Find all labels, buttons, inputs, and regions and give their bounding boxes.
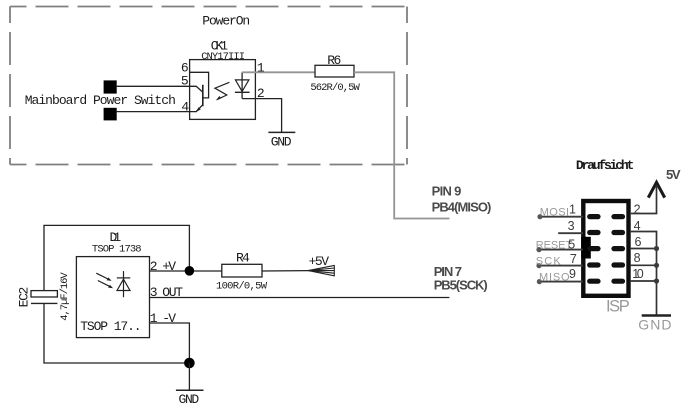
resistor R4 <box>222 264 262 277</box>
ISP connector body <box>583 201 628 296</box>
ground bar opto <box>268 131 295 133</box>
pin 1 -V wire <box>150 323 190 363</box>
svg-text:MISO: MISO <box>539 271 570 283</box>
svg-text:RESET: RESET <box>536 239 573 251</box>
wire pin5 collector <box>117 86 203 92</box>
photodiode triangle <box>117 279 130 290</box>
wire RESET stub <box>539 249 583 251</box>
ground bar TSOP <box>176 389 204 391</box>
svg-text:-V: -V <box>162 311 176 326</box>
wire MISO stub <box>540 281 583 283</box>
capacitor EC2 negative plate <box>31 302 57 304</box>
svg-text:+V: +V <box>162 259 176 274</box>
capacitor EC2 positive plate <box>31 291 57 297</box>
junction dot -V <box>184 358 195 369</box>
wire R4 to +5V <box>262 270 308 272</box>
photodiode vertical lead <box>123 271 125 297</box>
wire pin6 base connection <box>190 72 209 98</box>
gnd rail vertical <box>656 232 658 316</box>
LED D anode lead <box>241 72 243 98</box>
optocoupler U OK1 box <box>190 60 256 120</box>
svg-text:2: 2 <box>150 259 158 274</box>
svg-text:8: 8 <box>634 251 641 265</box>
svg-text:GND: GND <box>179 392 200 407</box>
svg-text:PowerOn: PowerOn <box>202 14 250 29</box>
dashed frame PowerOn region <box>10 7 407 165</box>
svg-text:PIN 9: PIN 9 <box>432 183 462 198</box>
LED triangle <box>235 80 249 92</box>
junction dot pin8 <box>654 263 659 268</box>
svg-text:SCK: SCK <box>536 255 562 267</box>
wire pin2 to 5V <box>631 213 658 215</box>
svg-text:PB4(MISO): PB4(MISO) <box>432 200 492 215</box>
photodiode cathode bar <box>117 277 131 279</box>
svg-text:9: 9 <box>569 267 576 281</box>
transistor Q base bar <box>202 85 204 106</box>
emitter arrowhead <box>195 107 200 112</box>
wire pin4 to gnd rail <box>631 231 658 233</box>
svg-text:TSOP 1738: TSOP 1738 <box>92 244 142 256</box>
svg-text:3: 3 <box>568 219 575 233</box>
pins left column <box>587 214 625 284</box>
svg-text:10: 10 <box>632 267 644 281</box>
5V arrow <box>648 182 664 197</box>
wire +V top loop <box>44 225 189 290</box>
svg-text:5V: 5V <box>666 167 681 182</box>
resistor R6 <box>315 65 354 77</box>
connector pad square upper <box>104 80 117 93</box>
pin 3 OUT wire <box>150 297 450 299</box>
pin 2 +V wire <box>150 270 222 272</box>
svg-text:3: 3 <box>150 285 158 300</box>
svg-text:4,7µF/16V: 4,7µF/16V <box>59 272 71 321</box>
svg-text:100R/0,5W: 100R/0,5W <box>216 280 268 292</box>
svg-text:MOSI: MOSI <box>540 206 569 218</box>
wire to GND <box>188 363 190 390</box>
svg-text:OUT: OUT <box>162 285 183 300</box>
svg-text:PIN 7: PIN 7 <box>434 264 462 279</box>
light arrow zigzag <box>215 82 230 99</box>
wire pin6 to gnd rail <box>631 248 658 250</box>
svg-text:PB5(SCK): PB5(SCK) <box>434 278 488 293</box>
light arrowhead <box>216 96 221 101</box>
svg-text:7: 7 <box>570 252 577 266</box>
wire -V bottom loop <box>44 303 189 363</box>
svg-text:5: 5 <box>568 237 575 251</box>
svg-text:562R/0,5W: 562R/0,5W <box>310 82 360 94</box>
svg-text:4: 4 <box>181 100 189 115</box>
LED cathode bar <box>235 91 250 93</box>
svg-text:R6: R6 <box>327 53 341 68</box>
svg-text:Mainboard Power Switch: Mainboard Power Switch <box>25 93 176 108</box>
wire R6 to PB4 (gray net) <box>354 72 449 218</box>
svg-text:GND: GND <box>638 317 671 333</box>
pins right column <box>611 214 625 219</box>
svg-text:GND: GND <box>271 134 292 149</box>
svg-text:1: 1 <box>150 311 158 326</box>
junction dot +V <box>185 266 195 276</box>
wire pin10 to gnd rail <box>631 280 658 282</box>
IR receiver D1 box <box>76 257 149 338</box>
wire pin8 to gnd rail <box>631 264 658 266</box>
svg-text:TSOP 17..: TSOP 17.. <box>80 319 141 334</box>
wire MOSI stub <box>540 216 583 218</box>
svg-text:R4: R4 <box>236 251 250 266</box>
wire SCK stub <box>539 265 583 267</box>
wire pin1 to R6 (gray net) <box>242 71 315 73</box>
wire pin3 stub <box>558 232 583 234</box>
svg-text:ISP: ISP <box>606 298 630 316</box>
+5V supply arrow <box>308 265 334 276</box>
key mark <box>581 237 591 259</box>
svg-text:CNY17III: CNY17III <box>201 51 245 63</box>
connector pad square lower <box>104 108 117 121</box>
IR arrows <box>96 273 109 279</box>
svg-text:EC2: EC2 <box>17 287 32 308</box>
wire pin4 emitter <box>117 105 203 112</box>
junction dot pin10 <box>654 278 659 283</box>
svg-text:6: 6 <box>635 235 642 249</box>
svg-text:Draufsicht: Draufsicht <box>576 158 634 173</box>
wire pin2 to GND <box>242 99 282 133</box>
svg-text:1: 1 <box>569 203 576 217</box>
ground bar ISP <box>642 314 671 317</box>
junction dot pin6 <box>654 246 659 251</box>
